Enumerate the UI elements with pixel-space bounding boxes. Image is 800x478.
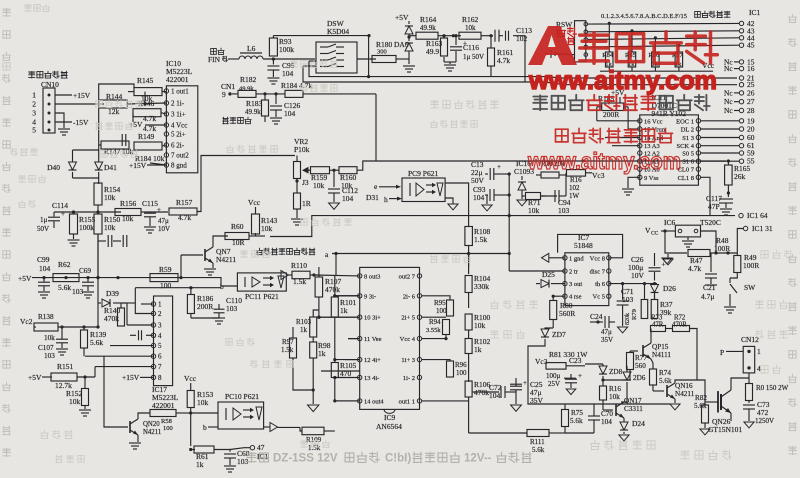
wire R160 up right <box>357 161 376 170</box>
ground QN20 <box>137 435 139 442</box>
wire IC10 outer loop <box>99 84 134 95</box>
ground C112 <box>329 203 340 209</box>
wire QP15 base <box>630 350 638 352</box>
ground arrow near C26 <box>662 258 672 264</box>
resistor R183 <box>264 94 266 100</box>
resistor R143 <box>249 235 256 237</box>
resistor R155 <box>70 214 78 234</box>
resistor R111 <box>469 432 527 434</box>
wire R157 up to VR2 <box>197 156 295 212</box>
IC IC11 box <box>640 115 699 185</box>
capacitor C116 <box>455 36 457 45</box>
wire IC9 pin13 <box>335 377 360 379</box>
pin IC1 42-45 <box>739 21 743 25</box>
capacitor C25 <box>505 391 516 393</box>
capacitor C21 <box>710 253 712 272</box>
resistor R74 <box>651 359 653 369</box>
wire to QN26 gate <box>704 423 706 428</box>
watermark A logo <box>528 26 577 65</box>
wire IC11 right outputs <box>701 120 739 122</box>
wire IC7 pin8 loop <box>558 234 623 257</box>
label speed command <box>223 117 229 124</box>
transistor QN17 <box>615 404 617 416</box>
resistor R153 <box>187 391 194 408</box>
wire 25 line <box>303 66 737 85</box>
wire IC7 pin4 rse <box>553 295 565 297</box>
ghost mirrored caption bottom <box>247 452 531 464</box>
wire node row y212 <box>54 211 121 213</box>
ground IC6 <box>687 237 689 240</box>
wire Vc3 node <box>586 172 593 174</box>
resistor R16c <box>600 386 607 400</box>
op-amp IC17 box <box>154 296 173 386</box>
watermark big hanzi <box>580 32 718 64</box>
resistor R106v <box>465 381 472 397</box>
resistor R139 <box>83 327 85 330</box>
zener DA6 <box>405 43 413 51</box>
resistor R107 <box>318 267 320 277</box>
diode D24 <box>623 418 625 422</box>
wire R140 to IC17 <box>121 302 135 304</box>
resistor R98 <box>310 342 317 358</box>
pin 47 IC1 <box>250 446 254 450</box>
label CN10 current transformer <box>29 71 35 78</box>
wire IC17 pin5 <box>110 345 154 347</box>
wire CN10 pin2 <box>55 103 104 105</box>
ground R155 <box>68 239 80 241</box>
op-amp IC10 box <box>166 86 197 173</box>
wire RSW outputs <box>588 22 739 25</box>
zener ZD7 <box>545 328 553 329</box>
wire IC11 CL1 to R165 <box>701 177 710 215</box>
resistor R161 <box>490 36 492 48</box>
wire IC17 pin7 <box>95 366 154 368</box>
resistor R58 <box>150 410 176 417</box>
resistor R97 <box>290 338 297 358</box>
transistor QN26 IGBT <box>720 394 722 410</box>
ground C116 <box>449 62 451 64</box>
connector CN10 <box>43 88 55 133</box>
wire left col x98 down <box>97 234 99 326</box>
timer IC7 box <box>565 253 609 306</box>
resistor R154 <box>94 183 102 205</box>
resistor R165 <box>727 161 729 165</box>
resistor R186 <box>135 287 221 289</box>
wire QN26 collector to CN12 <box>731 378 749 390</box>
capacitor C73 <box>743 404 755 406</box>
resistor R109 <box>278 426 301 428</box>
zener ZD8 <box>602 364 604 366</box>
wire IC17 pin1 <box>141 303 154 305</box>
ground DA6 <box>403 65 415 67</box>
transistor QN20 <box>129 421 131 433</box>
resistor R80 <box>552 296 554 301</box>
wire IC9 pin9 <box>335 295 360 297</box>
arrow out PC10 <box>264 426 270 428</box>
capacitor C70 <box>588 415 600 417</box>
wire PC9 out to R108 <box>445 183 469 226</box>
wire IC11 pin9 gnd <box>628 177 640 188</box>
svg-text:www.aitmy.com: www.aitmy.com <box>528 65 717 95</box>
wire Vcc down to R48 <box>665 231 687 253</box>
ground CN10 <box>58 128 70 130</box>
resistor R159 <box>311 167 330 174</box>
wire IC9 pin12 <box>335 359 360 361</box>
wire left rail <box>98 95 100 160</box>
resistor R105 <box>331 363 338 378</box>
wire QN7 collector <box>213 236 228 247</box>
resistor R150 <box>94 214 102 234</box>
wire R184 drop <box>375 94 377 161</box>
wire CN10 pin4 -15V <box>55 121 72 123</box>
wire th6 line <box>609 283 657 285</box>
wire IC1 31 feed <box>737 229 743 254</box>
wire CN10 pin1 +15V <box>55 94 72 96</box>
wire CN10 pin3 to ground <box>55 113 64 128</box>
wire DSW loop lower <box>309 60 316 62</box>
wire R156-R157 <box>145 211 168 213</box>
resistor R140 <box>120 303 122 308</box>
resistor R96 <box>447 361 454 377</box>
resistor R79 <box>644 284 646 300</box>
label FIN terminal <box>211 49 217 55</box>
wires right cluster <box>422 296 450 300</box>
resistor R147 <box>101 141 129 149</box>
watermark fragment rsw <box>557 27 566 36</box>
ground C110 <box>213 317 225 319</box>
pin IC1 31 <box>743 226 747 230</box>
capacitor C126 <box>275 94 277 104</box>
wire IC11 left feeds <box>597 120 640 122</box>
wire +5V bus <box>32 277 205 279</box>
capacitor C117 <box>719 198 733 200</box>
wire C113 to 25 <box>513 36 525 82</box>
diode D40 <box>72 150 74 162</box>
wire 21 line <box>309 61 737 78</box>
wire DSW top feed <box>273 35 369 37</box>
ground PC9 <box>448 204 458 210</box>
diode D41 <box>98 160 100 162</box>
wire R72 down to QN16 <box>690 329 698 381</box>
wire bus A y161 <box>376 160 726 162</box>
ground QN7 <box>212 263 214 268</box>
pin IC1 64 <box>739 213 743 217</box>
ground C115 <box>149 222 151 226</box>
pin 21 25 <box>739 76 743 80</box>
paper noise <box>0 0 1 1</box>
wire diode join <box>72 172 74 178</box>
resistor R138 <box>34 326 36 328</box>
wire Vcc net <box>600 70 713 72</box>
wire bus B left step <box>270 216 735 237</box>
wire Vcc to IC6 <box>661 230 675 232</box>
arrow input left <box>281 271 289 280</box>
resistor R103 <box>313 310 319 317</box>
label DC voltage sampling <box>256 248 262 255</box>
wire IC7 pin2 <box>509 270 565 272</box>
wire C13 node vertical <box>508 174 510 216</box>
resistor R101 <box>334 276 336 297</box>
resistor R102 <box>465 339 472 354</box>
resistor R152 <box>84 377 86 389</box>
resistor R104 <box>468 254 470 268</box>
ground QN16 <box>674 399 676 403</box>
capacitor C110 <box>190 314 192 319</box>
wire DSW pins left <box>315 58 318 60</box>
wire IC17 pin6 <box>85 355 154 357</box>
zener ZD6 <box>626 366 628 372</box>
resistor R93 <box>269 38 277 56</box>
transistor QP15 <box>642 345 644 357</box>
resistor R95 <box>447 300 454 316</box>
trimmer J3 <box>296 179 298 194</box>
capacitor C113 <box>494 30 496 42</box>
capacitor pair <box>107 235 109 247</box>
resistor R163 <box>443 36 445 38</box>
wire QN26 emitter <box>730 413 732 421</box>
transistor QN7 <box>180 255 182 278</box>
wire base loop QN20 <box>104 356 128 427</box>
resistor R110 <box>292 271 310 279</box>
wire IC17 pin3 <box>126 303 128 325</box>
wire R151 to pin7 <box>94 367 96 377</box>
wire DSW right outputs <box>357 58 376 60</box>
capacitor IC17 pin4 <box>146 334 154 336</box>
resistor R71 <box>522 195 526 197</box>
capacitor C112 <box>333 170 335 187</box>
resistor R61 <box>189 448 192 451</box>
watermark reprint row <box>556 128 673 142</box>
wire frame lines <box>528 358 670 404</box>
arrow gnd pin1 <box>549 257 565 259</box>
capacitor C95 <box>272 59 274 65</box>
resistor R0 <box>746 384 753 401</box>
wire R77 bottom <box>603 370 630 381</box>
capacitor stub <box>121 134 123 146</box>
resistor R37 <box>654 291 656 300</box>
wire a to IC9 pin8 <box>314 274 360 277</box>
wire out1 to R111 <box>422 400 469 402</box>
ground R98 R97 <box>308 405 319 412</box>
wire R161 down to 21 line <box>490 66 492 77</box>
resistor R94 <box>443 320 450 335</box>
wire QP15 collector <box>650 329 652 344</box>
ground R152 <box>84 406 86 409</box>
diode D26 <box>654 283 656 286</box>
resistor R108 <box>465 227 473 246</box>
resistor R77 <box>627 353 634 370</box>
capacitor C107 <box>56 338 68 340</box>
wire sample line to a <box>256 235 266 237</box>
IC17 loop wires <box>135 288 153 314</box>
wire CN12 down <box>748 373 750 384</box>
capacitor C94 <box>541 195 558 197</box>
wires IC9 left pins <box>335 295 360 297</box>
wire to R164 <box>409 35 416 37</box>
resistor R160 <box>339 167 357 174</box>
wire a node <box>332 253 509 255</box>
resistor network R84-R87 <box>608 23 610 52</box>
wire IC9 pin10 <box>319 316 360 318</box>
svg-text:www.aitmy.com: www.aitmy.com <box>527 148 681 174</box>
resistor R16b <box>567 170 586 177</box>
wire IC9 pin11 <box>348 338 360 340</box>
wire IC9 pin14 <box>335 400 360 402</box>
watermark original-text row <box>533 95 709 110</box>
wire QN20 collector <box>138 413 150 419</box>
resistor R100 <box>465 314 472 330</box>
capacitor C68 <box>224 453 236 455</box>
wire IC6 right <box>701 231 717 253</box>
resistor R49 <box>736 253 738 255</box>
IC9 box <box>360 267 420 409</box>
resistor R75 <box>562 410 569 427</box>
switch SW <box>730 273 737 279</box>
transistor QN16 <box>666 385 668 397</box>
